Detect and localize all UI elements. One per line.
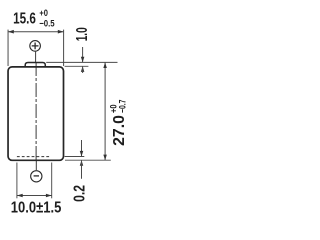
dimension 1.0 upper line [82,47,84,62]
plus sign [32,43,39,50]
dimension 1.0 upper arrowhead [81,57,85,63]
svg-text:0.2: 0.2 [72,185,89,202]
dimension 27.0 line [104,62,106,160]
left extension line [7,30,9,66]
dimension 10.0 right arrowhead [46,194,52,198]
minus sign [34,175,39,177]
dimension 10.0 left arrowhead [17,194,23,198]
body top extension line [65,65,89,67]
dimension 0.2 upper arrowhead [80,151,84,157]
polarity mark minus circle [31,171,42,182]
centerline leader bottom [35,160,37,170]
svg-text:27.0: 27.0 [111,115,128,146]
top dimension left arrowhead [8,30,14,34]
dimension text 15.6 +0/-0.5 (cell diameter) [13,8,55,30]
centerline dashed axis [35,62,37,160]
top dimension right arrowhead [58,30,64,34]
svg-text:−0.7: −0.7 [117,100,127,113]
dimension 10.0 left extension line [16,163,18,199]
svg-text:10.0±1.5: 10.0±1.5 [11,200,62,217]
top dimension line [8,31,64,33]
dimension 1.0 lower tail [82,66,84,73]
dimension 27.0 top arrowhead [103,62,107,68]
svg-text:−0.5: −0.5 [39,18,55,29]
svg-text:1.0: 1.0 [74,27,91,41]
dimension 27.0 bottom arrowhead [103,155,107,161]
svg-text:+0: +0 [39,8,48,19]
centerline leader top [35,52,37,62]
dimension 0.2 lower arrowhead [80,160,84,166]
dimension 1.0 lower arrowhead [81,66,85,72]
hidden contact dashed line [17,156,51,158]
button top extension line [46,61,117,63]
dimension 10.0 line [17,195,52,197]
battery body outline [8,67,63,160]
right extension line [63,30,65,66]
positive button terminal [25,63,45,68]
dashed level extension line [65,156,85,158]
body bottom extension line [65,159,111,161]
dimension 0.2 lower tail [81,160,83,179]
polarity mark plus circle [30,41,41,52]
dimension 0.2 upper line [81,140,83,157]
dimension 10.0 right extension line [51,163,53,199]
svg-text:15.6: 15.6 [13,11,36,28]
